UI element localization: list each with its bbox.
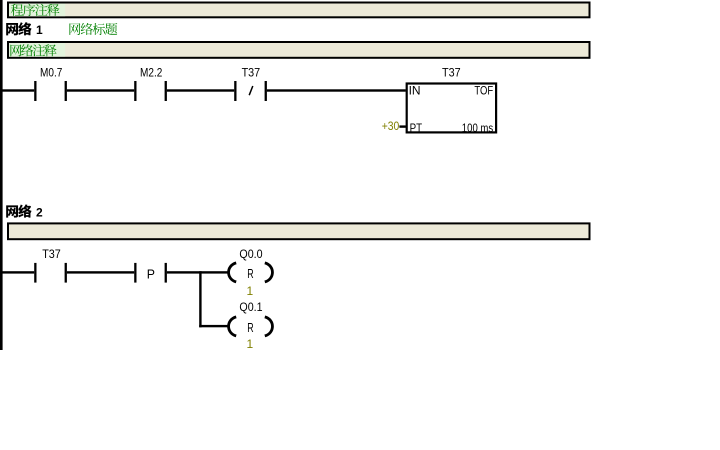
- branch vertical wire: [199, 271, 201, 327]
- network comment text 网络注释: [10, 44, 56, 56]
- contact T37 normally closed: [234, 81, 236, 101]
- contact M0.7: [34, 81, 36, 101]
- timer box T37 TOF: [407, 84, 496, 133]
- svg-text:Q0.1: Q0.1: [239, 300, 262, 314]
- svg-text:2: 2: [36, 205, 43, 219]
- wire M0.7 to M2.2: [67, 89, 134, 91]
- coil Q0.1 reset left paren: [229, 317, 237, 336]
- wire T37 to P: [67, 271, 134, 273]
- svg-text:PT: PT: [410, 121, 423, 135]
- network 2 label 网络 2: [6, 204, 31, 217]
- PT stub wire: [399, 125, 406, 127]
- svg-text:M2.2: M2.2: [140, 65, 163, 79]
- contact P positive edge: [134, 263, 136, 283]
- svg-text:T37: T37: [42, 247, 61, 261]
- network 2 comment box (empty): [8, 223, 590, 239]
- svg-text:R: R: [247, 321, 253, 335]
- wire M2.2 to T37: [167, 89, 234, 91]
- svg-text:T37: T37: [242, 65, 261, 79]
- svg-text:R: R: [247, 267, 253, 281]
- network 1 label 网络 1: [6, 22, 31, 35]
- svg-text:P: P: [147, 267, 155, 282]
- network comment box: [8, 42, 590, 58]
- wire T37 to timer box: [267, 89, 406, 91]
- svg-text:100 ms: 100 ms: [462, 121, 493, 135]
- program comment text 程序注释: [11, 4, 60, 16]
- svg-text:T37: T37: [442, 65, 461, 79]
- NC slash: [249, 86, 253, 95]
- coil Q0.0 reset left paren: [229, 263, 237, 282]
- contact T37 rung2: [34, 263, 36, 283]
- coil Q0.1 reset right paren: [265, 317, 273, 336]
- program comment box: [8, 3, 590, 18]
- wire P to coil Q0.0: [167, 271, 228, 273]
- wire rail to M0.7: [3, 89, 35, 91]
- network title text 网络标题: [69, 23, 117, 35]
- svg-text:IN: IN: [409, 84, 421, 98]
- left power rail: [0, 0, 3, 350]
- svg-text:1: 1: [36, 23, 43, 37]
- branch horizontal wire to Q0.1 coil: [199, 325, 227, 327]
- coil Q0.0 reset right paren: [265, 263, 273, 282]
- svg-text:Q0.0: Q0.0: [239, 247, 262, 261]
- svg-text:1: 1: [247, 337, 254, 351]
- svg-text:TOF: TOF: [474, 84, 493, 98]
- svg-text:M0.7: M0.7: [40, 65, 63, 79]
- svg-text:+30: +30: [382, 119, 400, 133]
- svg-text:1: 1: [247, 284, 254, 298]
- contact M2.2: [134, 81, 136, 101]
- wire rail to T37: [3, 271, 35, 273]
